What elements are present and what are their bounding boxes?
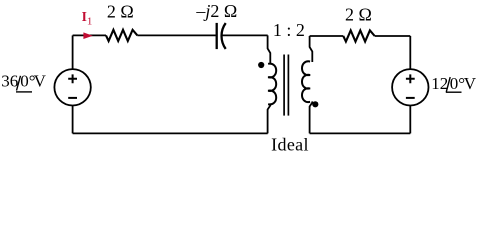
wire: primary vertical down to coil (with jog)	[268, 35, 271, 64]
label 12 angle 0 V (right source)	[431, 74, 477, 93]
svg-text:1 : 2: 1 : 2	[273, 20, 305, 40]
wire: right mesh top, corner to resistor	[310, 35, 344, 37]
capacitor C -j2ohm curved plate	[222, 23, 226, 49]
angle slash (right)	[446, 77, 450, 92]
transformer core line left	[283, 55, 285, 116]
wire: right vertical below source	[409, 106, 411, 134]
wire: primary coil down to bottom (with jog)	[268, 104, 271, 134]
resistor R 2ohm (left)	[106, 30, 137, 41]
wire: secondary vertical from top corner to coil (with jog)	[310, 36, 313, 62]
voltage source V1 circle	[54, 69, 90, 105]
wire: left mesh bottom	[73, 132, 268, 134]
plus sign of V2	[406, 74, 415, 83]
voltage source V2 circle	[392, 69, 428, 105]
wire: right vertical above source	[409, 36, 411, 69]
wire: right mesh bottom	[310, 132, 411, 134]
angle underline (right)	[446, 91, 462, 93]
inductor: transformer primary coil	[268, 64, 276, 105]
wire: left vertical above source	[72, 35, 74, 69]
svg-text:2 Ω: 2 Ω	[345, 4, 372, 24]
inductor: transformer secondary coil	[302, 61, 310, 102]
svg-text:V: V	[34, 72, 47, 91]
svg-text:2 Ω: 2 Ω	[107, 2, 134, 22]
svg-text:V: V	[464, 74, 477, 93]
polarity dot secondary (bottom-right)	[312, 101, 318, 107]
transformer core line right	[287, 55, 289, 116]
svg-text:12: 12	[431, 74, 448, 93]
plus sign of V1	[68, 74, 77, 83]
wire: capacitor to transformer primary corner	[222, 34, 268, 36]
wire: left vertical below source	[72, 106, 74, 134]
capacitor C -j2ohm left plate	[216, 23, 218, 49]
minus sign of V2	[406, 97, 415, 99]
svg-text:36: 36	[1, 72, 18, 91]
polarity dot primary (top-left)	[258, 62, 264, 68]
wire: left mesh top, source corner to resistor	[73, 34, 106, 36]
svg-text:–j2 Ω: –j2 Ω	[195, 1, 237, 21]
resistor R 2ohm (right)	[343, 30, 374, 41]
wire: resistor to right corner	[375, 35, 411, 37]
minus sign of V1	[68, 97, 77, 99]
current arrow I1 (red)	[83, 32, 92, 39]
angle underline (left)	[16, 91, 32, 93]
angle slash (left)	[17, 76, 21, 91]
wire: secondary coil down to bottom (with jog)	[310, 101, 313, 133]
wire: resistor to capacitor left plate	[137, 34, 215, 36]
svg-text:Ideal: Ideal	[271, 135, 309, 155]
label 36 angle 0 V (left source)	[1, 72, 46, 91]
